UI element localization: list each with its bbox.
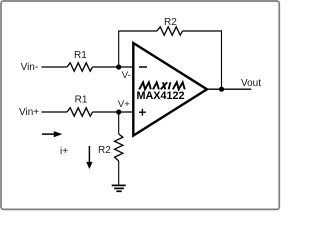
svg-text:R2: R2 <box>98 145 111 156</box>
svg-text:i+: i+ <box>60 146 68 157</box>
current arrow i+ (right) <box>42 131 62 137</box>
wire top feedback right segment <box>183 30 223 32</box>
node V- junction <box>116 64 121 69</box>
svg-text:Vout: Vout <box>241 78 261 89</box>
svg-text:Vin-: Vin- <box>21 62 39 73</box>
wire feedback riser right <box>221 30 223 89</box>
svg-text:R1: R1 <box>75 94 88 105</box>
wire Vin- to R1 <box>41 66 67 68</box>
svg-text:V+: V+ <box>118 99 130 110</box>
pin + (non-inverting input marker) <box>139 109 146 116</box>
resistor R2 (feedback) <box>157 27 183 35</box>
resistor R1 (bottom) <box>67 108 93 116</box>
MAXIM logo <box>139 82 185 89</box>
wire R1 to op-amp inverting input <box>93 66 134 68</box>
pin - (inverting input marker) <box>139 66 147 68</box>
wire feedback riser left <box>118 31 120 67</box>
node V+ junction <box>116 109 121 114</box>
ground <box>112 185 126 191</box>
resistor R2 (to ground) <box>115 134 123 161</box>
svg-text:V-: V- <box>122 70 131 81</box>
current arrow down through R2 <box>86 146 92 169</box>
wire top feedback left segment <box>118 30 157 32</box>
wire node V+ down to R2 <box>118 112 120 134</box>
node Vout junction <box>219 87 224 92</box>
wire Vin+ to R1 <box>41 111 67 113</box>
wire R2 to ground <box>118 161 120 185</box>
svg-text:MAX4122: MAX4122 <box>137 90 185 102</box>
wire R1 to op-amp non-inverting input <box>93 111 134 113</box>
svg-text:R1: R1 <box>74 50 87 61</box>
svg-text:Vin+: Vin+ <box>19 107 39 118</box>
op-amp U1 MAX4122 <box>133 43 207 136</box>
resistor R1 (top) <box>67 63 93 71</box>
svg-text:R2: R2 <box>164 17 177 28</box>
wire op-amp output <box>207 88 251 90</box>
